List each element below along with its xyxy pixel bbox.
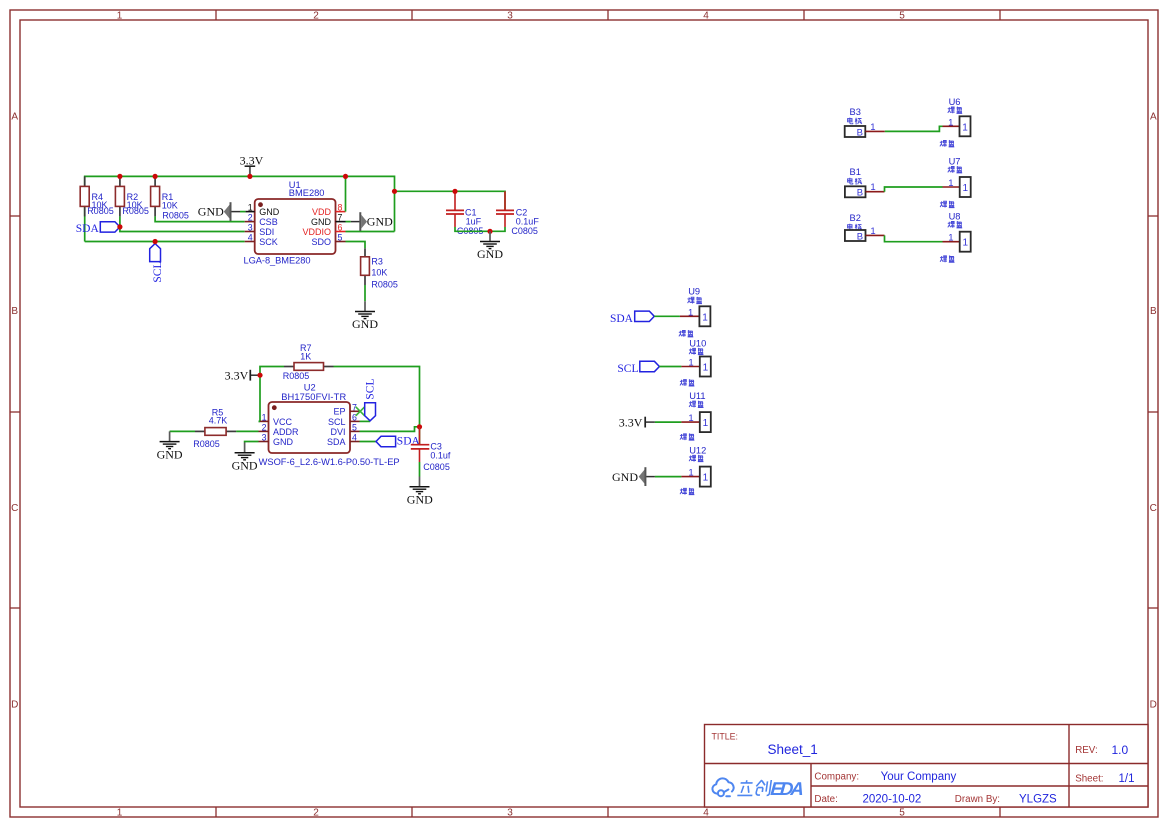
- pin 3 GND U2: [259, 433, 294, 447]
- frame column ticks top: [216, 10, 1000, 20]
- capacitor C1: [446, 189, 483, 237]
- electrode B1: [845, 167, 885, 199]
- svg-text:1K: 1K: [300, 351, 311, 361]
- svg-text:1: 1: [688, 307, 693, 318]
- svg-text:4: 4: [248, 233, 253, 243]
- svg-text:VDD: VDD: [312, 207, 332, 217]
- pad U11: [680, 391, 711, 440]
- svg-text:0.1uf: 0.1uf: [430, 451, 451, 461]
- pin 5 SDO U1: [311, 233, 345, 247]
- pad U12: [680, 445, 711, 494]
- svg-text:U2: U2: [304, 382, 316, 392]
- resistor R1: [151, 174, 189, 221]
- wire ADDR to R5: [236, 430, 258, 432]
- svg-text:1/1: 1/1: [1119, 773, 1135, 785]
- svg-text:1: 1: [870, 122, 875, 133]
- svg-text:REV:: REV:: [1075, 745, 1098, 756]
- pin 7 EP U2: [333, 402, 360, 416]
- net flag SCL U2 vertical: [360, 379, 377, 422]
- power flag 3.3V U1: [240, 154, 264, 179]
- svg-text:4: 4: [703, 11, 709, 22]
- pad U8: [940, 212, 971, 263]
- svg-text:Sheet_1: Sheet_1: [768, 742, 818, 757]
- svg-text:Your Company: Your Company: [881, 771, 957, 783]
- svg-text:B3: B3: [850, 107, 861, 117]
- resistor R4: [80, 176, 114, 216]
- net flag SCL vertical: [150, 239, 164, 283]
- svg-text:C0805: C0805: [511, 226, 538, 236]
- pin 4 SCK U1: [245, 233, 278, 247]
- frame row ticks left: [10, 216, 20, 608]
- svg-text:C0805: C0805: [423, 462, 450, 472]
- pin 6 VDDIO U1: [302, 223, 345, 237]
- frame column numbers: [117, 11, 906, 819]
- pin 7 GND U1: [311, 213, 346, 227]
- resistor R3: [361, 248, 398, 289]
- resistor R5: [193, 408, 236, 449]
- ground left of R5: [157, 431, 183, 461]
- rev label: [1075, 745, 1098, 756]
- svg-text:8: 8: [338, 203, 343, 213]
- GND flag pin1 U1: [198, 202, 246, 221]
- svg-text:A: A: [11, 112, 18, 123]
- svg-text:3: 3: [262, 433, 267, 443]
- svg-text:R0805: R0805: [162, 211, 189, 221]
- svg-text:2: 2: [262, 422, 267, 432]
- wire SCK rail: [85, 241, 245, 243]
- junction VDDIO rail: [392, 189, 397, 194]
- pin 6 SCL U2: [328, 412, 360, 426]
- wire R5 to ground: [170, 430, 195, 432]
- title block borders: [705, 725, 1149, 808]
- rev value: [1112, 743, 1129, 757]
- svg-text:B: B: [11, 306, 18, 317]
- sheet name: [768, 742, 818, 757]
- svg-text:1: 1: [117, 808, 123, 819]
- wire C3 to ground: [419, 462, 421, 477]
- svg-text:VDDIO: VDDIO: [302, 227, 331, 237]
- pin 1 VCC U2: [259, 412, 293, 426]
- svg-text:SCL: SCL: [617, 363, 638, 375]
- svg-text:U10: U10: [689, 338, 706, 348]
- wire R2 to SDI: [120, 216, 245, 231]
- svg-text:GND: GND: [477, 247, 503, 261]
- wire R7 to DVI rail: [334, 367, 420, 445]
- svg-text:GND: GND: [367, 215, 393, 229]
- svg-text:Drawn By:: Drawn By:: [955, 794, 1000, 805]
- svg-text:VCC: VCC: [273, 417, 293, 427]
- ground below pin3 U2: [232, 443, 258, 473]
- svg-text:5: 5: [899, 11, 905, 22]
- frame row letters: [11, 112, 1157, 711]
- GND flag pin7 U1: [346, 212, 394, 231]
- svg-text:SDA: SDA: [327, 437, 346, 447]
- svg-text:3.3V: 3.3V: [619, 415, 643, 429]
- svg-text:R0805: R0805: [193, 439, 220, 449]
- net flag SCL U10: [617, 361, 659, 375]
- wire DVI jog: [360, 424, 423, 431]
- power flag 3.3V U11: [619, 415, 655, 429]
- svg-text:CSB: CSB: [259, 217, 278, 227]
- svg-text:YLGZS: YLGZS: [1019, 793, 1057, 805]
- ground below caps: [477, 231, 503, 261]
- pad U6: [940, 97, 971, 147]
- pin 2 CSB U1: [245, 213, 278, 227]
- svg-text:D: D: [1150, 700, 1157, 711]
- wire R3 to ground: [364, 285, 366, 301]
- svg-text:TITLE:: TITLE:: [712, 732, 738, 742]
- svg-text:0.1uF: 0.1uF: [516, 217, 540, 227]
- resistor R2: [115, 174, 149, 217]
- svg-text:Sheet:: Sheet:: [1075, 774, 1103, 785]
- svg-text:1uF: 1uF: [466, 217, 482, 227]
- svg-text:3: 3: [507, 11, 513, 22]
- svg-text:R0805: R0805: [87, 206, 114, 216]
- svg-text:LGA-8_BME280: LGA-8_BME280: [244, 255, 311, 265]
- svg-text:1: 1: [117, 11, 123, 22]
- svg-text:4.7K: 4.7K: [209, 416, 228, 426]
- svg-text:GND: GND: [612, 470, 638, 484]
- wire VDD to rail: [343, 174, 348, 212]
- svg-text:BH1750FVI-TR: BH1750FVI-TR: [281, 392, 346, 402]
- svg-text:U12: U12: [689, 445, 706, 455]
- svg-text:1: 1: [948, 233, 953, 244]
- svg-text:1: 1: [948, 117, 953, 128]
- svg-text:4: 4: [703, 808, 709, 819]
- drawn by label: [955, 794, 1000, 805]
- svg-text:5: 5: [352, 422, 357, 432]
- svg-text:R0805: R0805: [371, 279, 398, 289]
- svg-text:SDA: SDA: [76, 223, 100, 235]
- svg-text:SCL: SCL: [328, 417, 346, 427]
- logo text 立创: [737, 780, 771, 795]
- svg-text:SDO: SDO: [311, 237, 331, 247]
- pin 5 DVI U2: [330, 422, 359, 436]
- svg-text:SCL: SCL: [152, 262, 164, 283]
- svg-text:4: 4: [352, 433, 357, 443]
- svg-text:DVI: DVI: [330, 427, 345, 437]
- svg-text:2: 2: [248, 213, 253, 223]
- date value: [863, 793, 922, 805]
- svg-text:D: D: [11, 700, 18, 711]
- capacitor C3: [411, 427, 451, 472]
- svg-text:R0805: R0805: [122, 206, 149, 216]
- svg-text:GND: GND: [311, 217, 332, 227]
- wire SDO to R3: [346, 242, 366, 249]
- wire B2 to U8: [885, 235, 943, 241]
- svg-text:BME280: BME280: [289, 188, 325, 198]
- svg-text:1: 1: [948, 178, 953, 189]
- svg-text:GND: GND: [352, 317, 378, 331]
- svg-text:GND: GND: [407, 492, 433, 506]
- ground below C3: [407, 477, 433, 507]
- svg-text:ADDR: ADDR: [273, 427, 299, 437]
- svg-text:WSOF-6_L2.6-W1.6-P0.50-TL-EP: WSOF-6_L2.6-W1.6-P0.50-TL-EP: [259, 457, 400, 467]
- svg-text:1: 1: [688, 413, 693, 424]
- company value: [881, 771, 957, 783]
- svg-text:3.3V: 3.3V: [225, 369, 249, 383]
- svg-text:1: 1: [688, 358, 693, 369]
- wire cap branch rail: [395, 191, 506, 210]
- ground below R3: [352, 301, 378, 331]
- svg-text:5: 5: [338, 233, 343, 243]
- svg-text:7: 7: [338, 213, 343, 223]
- title label: [712, 732, 738, 742]
- pad U10: [680, 338, 711, 386]
- svg-text:3: 3: [248, 223, 253, 233]
- svg-text:U6: U6: [949, 97, 961, 107]
- svg-text:10K: 10K: [162, 201, 178, 211]
- pin 1 GND U1: [246, 203, 280, 217]
- svg-text:6: 6: [338, 223, 343, 233]
- svg-text:2: 2: [313, 808, 319, 819]
- svg-text:3.3V: 3.3V: [240, 154, 264, 168]
- wire pin3 GND U2: [245, 442, 259, 443]
- frame column ticks bottom: [216, 807, 1000, 817]
- net flag SDA U2: [360, 435, 421, 447]
- op-amp U2 BH1750FVI-TR: [259, 382, 400, 467]
- svg-text:SDI: SDI: [259, 227, 274, 237]
- svg-text:U9: U9: [688, 287, 700, 297]
- svg-text:U7: U7: [949, 157, 961, 167]
- wire B3 to U6: [885, 126, 943, 131]
- svg-text:B: B: [857, 188, 863, 199]
- pad U7: [940, 157, 971, 208]
- svg-text:B: B: [857, 127, 863, 138]
- no-connect X on EP: [356, 407, 365, 416]
- svg-text:1: 1: [870, 182, 875, 193]
- svg-text:EP: EP: [333, 407, 345, 417]
- wire R1 to CSB: [155, 216, 245, 221]
- svg-text:GND: GND: [232, 458, 258, 472]
- svg-text:U11: U11: [689, 391, 705, 401]
- svg-text:B: B: [1150, 306, 1157, 317]
- wire VDDIO: [346, 231, 395, 233]
- op-amp U1 BME280: [244, 180, 336, 265]
- svg-text:A: A: [1150, 112, 1157, 123]
- svg-text:C: C: [11, 503, 18, 514]
- wire VCC rail U2: [260, 367, 284, 422]
- frame row ticks right: [1148, 216, 1158, 608]
- pin 4 SDA U2: [327, 433, 360, 447]
- wire 3.3V top rail: [85, 176, 395, 241]
- svg-text:3: 3: [507, 808, 513, 819]
- capacitor C2: [496, 191, 539, 236]
- svg-text:1: 1: [870, 226, 875, 237]
- resistor R7: [283, 343, 334, 381]
- logo LCEDA cloud: [712, 778, 733, 796]
- logo text EDA: [770, 778, 805, 799]
- power flag 3.3V U2: [225, 369, 263, 383]
- svg-text:5: 5: [899, 808, 905, 819]
- electrode B3: [845, 107, 885, 139]
- sheet value: [1119, 773, 1135, 785]
- svg-text:SDA: SDA: [397, 435, 421, 447]
- wire 3.3V to U11: [655, 421, 682, 423]
- pin 3 SDI U1: [245, 223, 275, 237]
- svg-text:B2: B2: [850, 213, 861, 223]
- svg-text:Company:: Company:: [814, 772, 859, 783]
- svg-text:2: 2: [313, 11, 319, 22]
- net flag SDA U9: [610, 311, 654, 325]
- svg-text:1: 1: [262, 412, 267, 422]
- date label: [814, 794, 837, 805]
- svg-text:2020-10-02: 2020-10-02: [863, 793, 922, 805]
- wire GND to U12: [655, 476, 682, 478]
- svg-text:U8: U8: [949, 212, 961, 222]
- svg-text:GND: GND: [157, 448, 183, 462]
- pin 8 VDD U1: [312, 203, 346, 217]
- svg-text:GND: GND: [198, 205, 224, 219]
- pin 2 ADDR U2: [259, 422, 300, 436]
- svg-text:1: 1: [688, 468, 693, 479]
- wire SCL to U10: [659, 366, 681, 368]
- wire SDA to U9: [654, 315, 680, 317]
- sheet label: [1075, 774, 1103, 785]
- electrode B2: [845, 213, 885, 243]
- svg-text:GND: GND: [259, 207, 280, 217]
- pad U9: [679, 287, 711, 337]
- wire cap bottom rail: [455, 227, 505, 234]
- net flag SDA left: [76, 222, 123, 235]
- svg-text:B1: B1: [850, 167, 861, 177]
- svg-text:EDA: EDA: [770, 778, 805, 799]
- drawn by value: [1019, 793, 1057, 805]
- svg-text:10K: 10K: [371, 267, 387, 277]
- svg-text:6: 6: [352, 412, 357, 422]
- svg-text:R0805: R0805: [283, 371, 310, 381]
- svg-text:1: 1: [248, 203, 253, 213]
- svg-text:1.0: 1.0: [1112, 743, 1129, 757]
- wire B1 to U7: [885, 187, 943, 192]
- svg-text:SCK: SCK: [259, 237, 278, 247]
- svg-text:SDA: SDA: [610, 313, 634, 325]
- svg-text:R3: R3: [371, 257, 383, 267]
- svg-text:Date:: Date:: [814, 794, 837, 805]
- GND flag U12: [612, 467, 655, 486]
- svg-text:GND: GND: [273, 437, 294, 447]
- company label: [814, 772, 859, 783]
- svg-text:B: B: [857, 231, 863, 242]
- svg-text:C: C: [1150, 503, 1157, 514]
- svg-text:SCL: SCL: [364, 379, 376, 400]
